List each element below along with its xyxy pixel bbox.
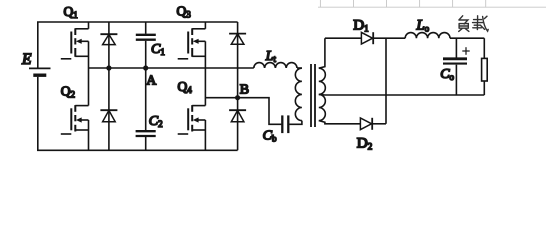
wire D2 cathode to join vertical: [372, 123, 386, 125]
label 负载 (load): [459, 16, 489, 32]
wire right leg bottom segment (Q4 source to bottom rail): [204, 120, 206, 150]
svg-text:D1: D1: [353, 17, 368, 34]
wire right leg drain segment: [204, 22, 206, 29]
wire Cb to transformer: [289, 121, 302, 125]
wire battery top lead: [37, 22, 39, 68]
capacitor Co: [443, 59, 467, 64]
wire left leg drain segment: [88, 22, 90, 29]
svg-text:Lo: Lo: [416, 18, 430, 34]
transistor Q3: [178, 28, 206, 59]
junction dot diode-B: [235, 95, 240, 100]
svg-text:Q2: Q2: [61, 84, 75, 100]
svg-text:C2: C2: [149, 114, 163, 129]
diode D1: [361, 32, 373, 44]
inductor Lo: [405, 33, 450, 39]
wire capacitor branch top: [145, 22, 147, 34]
wire left leg middle segment (Q1 source to A to Q2 drain): [88, 41, 90, 105]
wire battery bottom lead: [37, 77, 39, 151]
capacitor Cb: [282, 115, 288, 133]
wire left leg bottom segment (Q2 source to bottom rail): [88, 120, 90, 150]
svg-text:Co: Co: [440, 67, 454, 82]
svg-text:Lt: Lt: [265, 48, 277, 64]
inductor Lt: [254, 63, 297, 68]
wire Co branch top: [455, 38, 457, 57]
wire secondary top terminal: [319, 38, 325, 68]
wire Lt to transformer: [297, 67, 302, 69]
transformer primary winding: [295, 68, 302, 120]
wire load bottom lead: [483, 81, 485, 95]
diode D-Q2 (antiparallel): [100, 110, 117, 122]
svg-text:E: E: [21, 51, 32, 68]
wire right leg middle segment (Q3 source to B to Q4 drain): [204, 41, 206, 105]
resistor load box: [482, 58, 488, 81]
junction dot capacitor-A: [143, 65, 148, 70]
diode D-Q4 (antiparallel): [229, 110, 246, 122]
wire D1 to Lo node: [373, 37, 405, 39]
svg-text:Cb: Cb: [263, 129, 277, 144]
svg-text:Q3: Q3: [177, 4, 192, 20]
transistor Q1: [61, 28, 89, 59]
wire top rail: [37, 21, 238, 23]
wire Lo to load: [450, 37, 484, 39]
transformer secondary winding: [319, 68, 326, 120]
wire center tap output rail: [319, 93, 485, 96]
wire secondary bottom terminal: [319, 121, 361, 124]
junction dot diode-A: [106, 65, 111, 70]
transistor Q4: [178, 105, 206, 134]
wire rectifier join vertical: [385, 38, 387, 124]
wire Co branch bottom: [455, 65, 457, 95]
capacitor C2: [136, 131, 156, 136]
wire load top lead: [483, 38, 485, 58]
capacitor C1: [136, 35, 156, 40]
svg-text:A: A: [146, 74, 157, 89]
diode D2: [360, 118, 372, 130]
wire bottom rail: [37, 149, 238, 151]
svg-text:B: B: [240, 83, 249, 98]
plus polarity mark: [462, 47, 469, 55]
svg-text:Q4: Q4: [178, 79, 193, 95]
svg-text:Q1: Q1: [64, 4, 78, 20]
wire capacitor branch middle: [145, 41, 147, 130]
wire capacitor branch bottom: [145, 137, 147, 150]
transformer core: [311, 64, 315, 127]
wire node A rail: [89, 67, 254, 69]
battery E: [29, 68, 51, 75]
wire left diode branch: [108, 22, 110, 150]
wire right diode branch: [237, 22, 239, 150]
bleed-through table artifact top right: [318, 0, 546, 7]
svg-text:C1: C1: [151, 42, 165, 57]
transistor Q2: [61, 105, 89, 134]
wire node B: [205, 98, 281, 125]
wire secondary to D1: [325, 37, 362, 39]
svg-text:D2: D2: [357, 134, 372, 151]
diode D-Q1 (antiparallel): [100, 34, 117, 44]
diode D-Q3 (antiparallel): [229, 34, 246, 45]
